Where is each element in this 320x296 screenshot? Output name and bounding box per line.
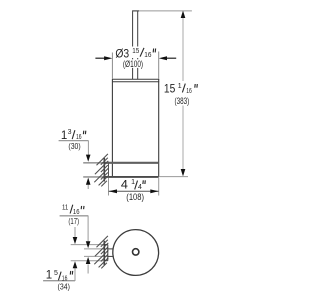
center screw hole	[133, 249, 139, 255]
depth dimension line and arrows	[109, 189, 159, 193]
mount thickness dimension 1 3/16 leader	[59, 141, 89, 190]
svg-text:3: 3	[68, 129, 72, 136]
dimension text (Ø100) mm	[122, 59, 145, 69]
svg-text:5: 5	[54, 270, 58, 277]
svg-text:(383): (383)	[175, 96, 190, 106]
wall line (plan)	[103, 241, 105, 265]
cup cylinder left edge	[111, 79, 113, 177]
svg-text:1: 1	[178, 83, 182, 90]
svg-text:(34): (34)	[58, 282, 71, 292]
extension of line C to right	[159, 176, 188, 178]
rosette front edge (side view)	[108, 163, 110, 177]
svg-text:1: 1	[46, 269, 52, 281]
diameter dimension arrows	[95, 56, 176, 60]
dimension text 4 1/4 inch	[120, 179, 147, 192]
svg-text:15: 15	[132, 48, 139, 55]
dimension text 15 1/16 inch	[163, 82, 199, 95]
wall offset dimension 11/16 leader	[60, 216, 89, 274]
dimension text Ø3 15/16 inch	[115, 47, 157, 61]
svg-text:(30): (30)	[68, 141, 80, 151]
holder base bottom edge (line C)	[104, 176, 158, 178]
svg-text:1: 1	[61, 130, 67, 142]
svg-text:16: 16	[186, 88, 192, 95]
wall hatching (plan)	[94, 236, 108, 269]
mount thickness arrows	[86, 155, 91, 162]
arm extension lines (plan)	[84, 249, 108, 257]
dimension text 1 3/16 inch	[61, 129, 86, 142]
svg-text:(Ø100): (Ø100)	[123, 59, 143, 69]
svg-text:16: 16	[144, 52, 151, 59]
svg-text:15: 15	[164, 83, 175, 95]
rosette (plan)	[104, 245, 108, 261]
arm (plan)	[108, 249, 114, 257]
diameter extension lines	[112, 52, 158, 79]
svg-text:4: 4	[138, 184, 142, 191]
holder ring top edge (line A)	[104, 162, 158, 164]
cup outline circle (plan)	[113, 230, 159, 276]
top extension line for height dimension	[139, 10, 192, 12]
svg-text:4: 4	[121, 180, 129, 192]
wall offset arrows (17)	[86, 241, 91, 248]
cup rim lines	[112, 79, 159, 82]
svg-text:(108): (108)	[126, 192, 144, 202]
wall line (side view)	[103, 158, 105, 182]
dimension text (383) mm	[173, 96, 191, 106]
center offset arrows (34)	[73, 237, 78, 244]
height dimension line	[181, 11, 186, 177]
depth dimension 4 1/4 extension lines	[109, 178, 159, 196]
brush handle rod	[132, 11, 139, 79]
svg-text:11: 11	[62, 204, 68, 211]
rosette extension lines (plan)	[71, 245, 105, 261]
wall hatching (side view)	[94, 154, 108, 187]
svg-text:1: 1	[131, 179, 135, 186]
dimension text 1 5/16 inch	[46, 269, 73, 282]
cup cylinder right edge	[158, 79, 160, 177]
svg-text:(17): (17)	[68, 216, 79, 226]
extension of line C to left	[83, 176, 104, 178]
center offset dimension 1 5/16 leader	[43, 227, 75, 281]
extension of line A to left	[83, 162, 104, 164]
dimension text 11/16 inch	[62, 204, 84, 216]
